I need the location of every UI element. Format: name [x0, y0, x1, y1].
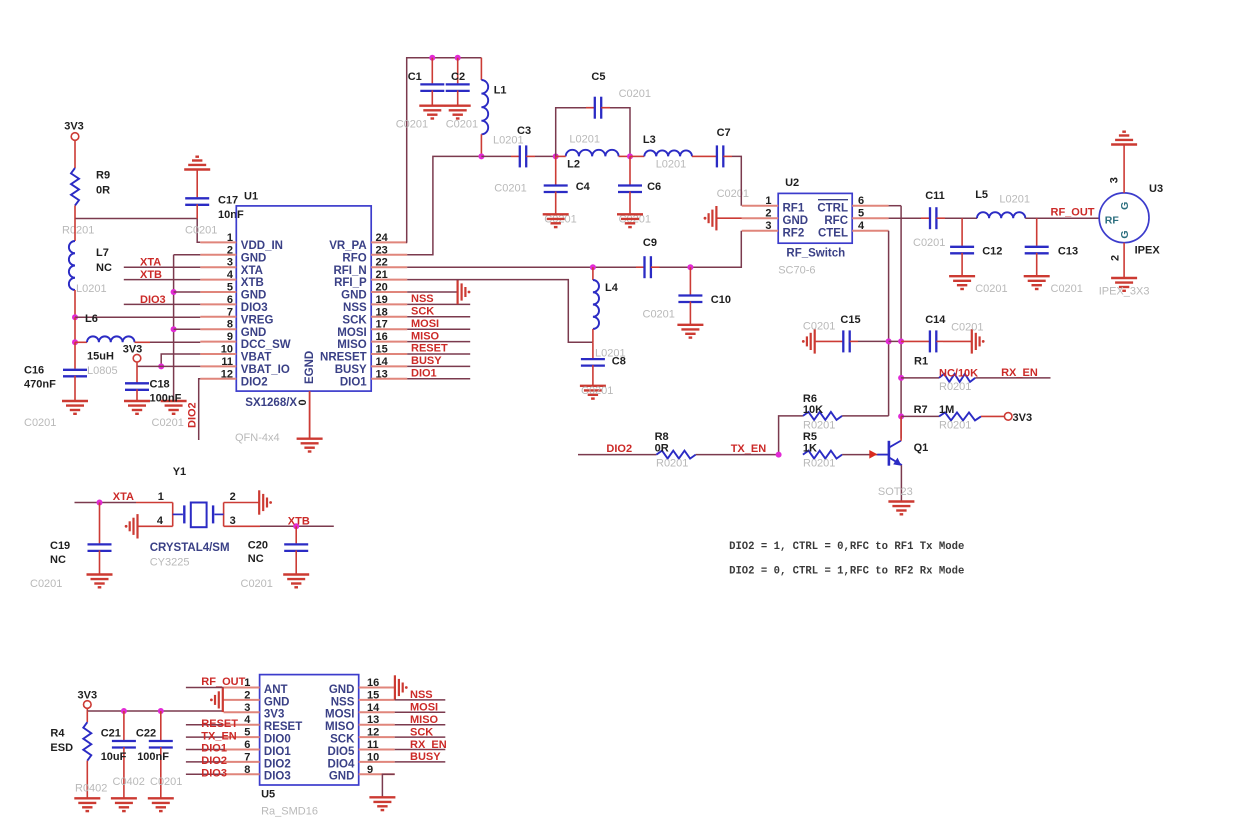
- svg-text:DIO3: DIO3: [241, 302, 268, 314]
- wire R6 right to CTEL: [842, 415, 889, 417]
- wire L5 to U3: [1025, 217, 1099, 219]
- wire XTB net (crystal): [224, 525, 260, 527]
- svg-text:NSS: NSS: [331, 696, 355, 708]
- svg-text:C22: C22: [136, 728, 156, 740]
- svg-text:3V3: 3V3: [78, 690, 98, 702]
- svg-text:3: 3: [227, 257, 233, 269]
- U5 pin 13 stub: [359, 724, 395, 726]
- wire 3V3 to R9: [74, 140, 76, 168]
- U1 pin 15 stub: [371, 353, 407, 355]
- U5 pin 3 stub: [224, 711, 260, 713]
- wire RFI_P net: [407, 280, 593, 343]
- svg-text:C0201: C0201: [581, 385, 613, 397]
- U1 pin 22 stub: [371, 266, 407, 268]
- svg-text:0: 0: [297, 399, 309, 405]
- svg-text:C2: C2: [451, 71, 465, 83]
- junction dot C21: [121, 708, 127, 714]
- svg-text:DIO2: DIO2: [241, 376, 268, 388]
- crystal Y1: [173, 503, 224, 528]
- junction dot C1: [429, 55, 435, 61]
- wire DIO3 net: [124, 303, 201, 305]
- svg-text:XTB: XTB: [241, 277, 264, 289]
- svg-text:C0201: C0201: [717, 188, 749, 200]
- U1 pin 5 stub: [200, 291, 236, 293]
- U5 pin 1 stub: [224, 687, 260, 689]
- svg-text:GND: GND: [241, 290, 267, 302]
- svg-text:DIO1: DIO1: [340, 376, 367, 388]
- U1 pin 9 stub: [200, 341, 236, 343]
- U3 pin 3 wire: [1123, 145, 1125, 193]
- wire R5 to Q1 base: [842, 454, 887, 456]
- wire C3 to L2 node: [535, 155, 556, 157]
- svg-text:C12: C12: [982, 246, 1002, 258]
- svg-text:4: 4: [157, 515, 164, 527]
- resistor R9: [71, 168, 79, 206]
- wire 3V3 rail: [86, 708, 88, 711]
- wire CTRL vertical: [889, 205, 902, 207]
- svg-text:SCK: SCK: [330, 734, 355, 746]
- svg-text:10uF: 10uF: [101, 751, 127, 763]
- ground C10: [677, 325, 703, 338]
- svg-text:16: 16: [367, 677, 379, 689]
- U1 pin 10 stub: [200, 353, 236, 355]
- transistor Q1: [877, 441, 902, 466]
- resistor R8: [656, 451, 695, 459]
- U2 pin 1 stub: [742, 205, 778, 207]
- svg-text:14: 14: [376, 356, 389, 368]
- U1 pin 8 stub: [200, 328, 236, 330]
- svg-text:BUSY: BUSY: [410, 751, 441, 763]
- svg-text:6: 6: [244, 739, 250, 751]
- svg-text:DIO2: DIO2: [187, 402, 199, 428]
- wire Y1 pin2 to ground: [224, 502, 260, 504]
- svg-text:470nF: 470nF: [24, 379, 56, 391]
- junction dot C2: [455, 55, 461, 61]
- svg-text:RFC: RFC: [824, 215, 848, 227]
- ground C16: [62, 401, 88, 414]
- svg-text:RF2: RF2: [783, 227, 805, 239]
- wire U2 pin5 to C11: [889, 217, 921, 219]
- svg-text:MOSI: MOSI: [410, 702, 438, 714]
- wire VBAT step: [161, 354, 200, 366]
- resistor R6: [803, 412, 842, 420]
- U5 pin 8 stub: [224, 773, 260, 775]
- resistor R1: [939, 374, 975, 382]
- U5 pin 11 stub: [359, 749, 395, 751]
- svg-text:C0201: C0201: [185, 225, 217, 237]
- wire C17 to U1 pin1: [197, 219, 200, 243]
- U5 pin 9 stub: [359, 773, 395, 775]
- svg-text:U1: U1: [244, 191, 258, 203]
- wire net NSS (U1 pin 19): [407, 303, 470, 305]
- ground C1: [419, 106, 445, 119]
- wire MISO from U5 pin 13: [395, 724, 446, 726]
- svg-text:1: 1: [227, 232, 233, 244]
- svg-text:2: 2: [765, 208, 771, 220]
- svg-text:C8: C8: [612, 356, 626, 368]
- capacitor C6: [629, 156, 631, 184]
- U1 pin 2 stub: [200, 254, 236, 256]
- svg-text:7: 7: [244, 751, 250, 763]
- svg-text:24: 24: [376, 232, 389, 244]
- svg-text:IPEX_3X3: IPEX_3X3: [1099, 286, 1150, 298]
- resistor R4: [86, 711, 88, 722]
- svg-text:MISO: MISO: [411, 330, 440, 342]
- wire SCK from U5 pin 12: [395, 736, 446, 738]
- svg-text:RESET: RESET: [264, 721, 302, 733]
- inductor L4: [592, 267, 594, 280]
- capacitor C19: [99, 503, 101, 544]
- wire L7 bottom to VREG node: [74, 290, 76, 317]
- U5 pin 12 stub: [359, 736, 395, 738]
- svg-text:C9: C9: [643, 237, 657, 249]
- ground Q1 emitter: [888, 502, 914, 515]
- svg-text:3V3: 3V3: [64, 121, 84, 133]
- svg-text:SCK: SCK: [410, 726, 433, 738]
- svg-text:G: G: [1119, 202, 1131, 210]
- capacitor C5: [586, 107, 595, 109]
- wire RF_OUT to U5 pin1: [186, 687, 224, 689]
- junction dot L1 bottom: [478, 153, 484, 159]
- svg-text:3: 3: [765, 220, 771, 232]
- wire net SCK (U1 pin 18): [407, 316, 470, 318]
- svg-text:C0201: C0201: [913, 237, 945, 249]
- svg-text:DCC_SW: DCC_SW: [241, 339, 291, 351]
- svg-text:DIO5: DIO5: [328, 746, 355, 758]
- U5 pin 16 stub: [359, 687, 395, 689]
- svg-text:3: 3: [1109, 177, 1121, 183]
- inductor L2: [566, 150, 619, 157]
- svg-text:0R: 0R: [655, 442, 669, 454]
- svg-text:C17: C17: [218, 195, 238, 207]
- svg-text:C3: C3: [517, 125, 531, 137]
- svg-text:NC: NC: [96, 262, 112, 274]
- svg-text:L0201: L0201: [999, 194, 1030, 206]
- svg-text:TX_EN: TX_EN: [731, 443, 767, 455]
- svg-text:12: 12: [367, 727, 379, 739]
- svg-text:DIO1: DIO1: [264, 746, 291, 758]
- wire C5 branch: [556, 108, 586, 157]
- svg-text:3V3: 3V3: [123, 344, 143, 356]
- svg-text:C5: C5: [591, 71, 605, 83]
- svg-text:R0201: R0201: [803, 420, 835, 432]
- wire MOSI from U5 pin 14: [395, 711, 446, 713]
- capacitor C20: [295, 526, 297, 543]
- base arrow (red): [869, 450, 877, 459]
- svg-text:NC: NC: [248, 553, 264, 565]
- junction dot VREG net: [72, 314, 78, 320]
- wire R9 bottom: [74, 206, 76, 219]
- U2 pin 3 stub: [742, 230, 778, 232]
- wire C14 to ground: [943, 340, 972, 342]
- svg-text:9: 9: [367, 764, 373, 776]
- svg-text:Y1: Y1: [173, 466, 186, 478]
- svg-text:Ra_SMD16: Ra_SMD16: [261, 806, 318, 818]
- svg-text:C0201: C0201: [446, 119, 478, 131]
- junction dot R7 node: [898, 413, 904, 419]
- wire R1 right RX_EN: [975, 377, 1050, 379]
- U5 pin 15 stub: [359, 699, 395, 701]
- svg-text:C0201: C0201: [619, 88, 651, 100]
- svg-text:C0201: C0201: [396, 119, 428, 131]
- svg-text:8: 8: [244, 764, 250, 776]
- ground U5 pin9: [369, 797, 395, 810]
- svg-text:MISO: MISO: [410, 714, 439, 726]
- svg-text:RF_OUT: RF_OUT: [201, 676, 245, 688]
- svg-text:CY3225: CY3225: [150, 557, 190, 569]
- svg-text:C15: C15: [840, 314, 860, 326]
- U5 pin 5 stub: [224, 736, 260, 738]
- svg-text:L0805: L0805: [87, 365, 118, 377]
- junction dot L4 top: [590, 264, 596, 270]
- svg-text:RFI_N: RFI_N: [333, 265, 366, 277]
- wire net DIO1 (U1 pin 13): [407, 378, 470, 380]
- svg-text:10: 10: [367, 751, 379, 763]
- capacitor C4: [555, 156, 557, 184]
- svg-text:U3: U3: [1149, 183, 1163, 195]
- wire R6 left vertical: [779, 416, 803, 455]
- svg-text:C0201: C0201: [150, 776, 182, 788]
- svg-text:R0201: R0201: [939, 420, 971, 432]
- svg-text:VBAT_IO: VBAT_IO: [241, 364, 290, 376]
- junction dot CTRL/C14: [898, 338, 904, 344]
- wire net MOSI (U1 pin 17): [407, 328, 470, 330]
- svg-text:XTA: XTA: [241, 265, 263, 277]
- wire VBAT_IO net: [137, 365, 200, 367]
- ground C14 (sideways): [972, 329, 980, 353]
- U1 pin 11 stub: [200, 365, 236, 367]
- svg-text:DIO2: DIO2: [606, 443, 632, 455]
- svg-text:DIO2: DIO2: [264, 758, 291, 770]
- svg-text:L0201: L0201: [569, 134, 600, 146]
- svg-text:13: 13: [367, 714, 379, 726]
- wire between CTEL and CTRL dots: [889, 340, 902, 342]
- ground C4: [543, 214, 569, 227]
- svg-text:14: 14: [367, 702, 380, 714]
- ground C22: [148, 798, 174, 811]
- svg-text:C4: C4: [576, 181, 591, 193]
- ground C18: [124, 401, 150, 414]
- svg-text:C0201: C0201: [30, 578, 62, 590]
- U5 pin 7 stub: [224, 761, 260, 763]
- junction dot pin5 GND: [171, 289, 177, 295]
- U1 pin 23 stub: [371, 254, 407, 256]
- U5 pin 14 stub: [359, 711, 395, 713]
- U2 pin 6 stub: [852, 205, 888, 207]
- svg-text:R0201: R0201: [656, 457, 688, 469]
- resistor R7: [939, 412, 981, 420]
- svg-text:DIO0: DIO0: [264, 734, 291, 746]
- wire U5 pin9 to ground: [382, 774, 394, 797]
- svg-text:13: 13: [376, 368, 388, 380]
- svg-text:XTB: XTB: [140, 269, 162, 281]
- capacitor C15: [815, 340, 844, 342]
- svg-text:RF: RF: [1105, 215, 1120, 227]
- svg-text:RF1: RF1: [783, 202, 805, 214]
- svg-text:R8: R8: [655, 431, 669, 443]
- svg-text:22: 22: [376, 257, 388, 269]
- U5 pin 2 stub: [224, 699, 260, 701]
- capacitor C17: [196, 170, 198, 198]
- ground above C17 (inverted): [184, 157, 210, 170]
- svg-text:6: 6: [858, 195, 864, 207]
- U1 pin 19 stub: [371, 303, 407, 305]
- U1 pin 16 stub: [371, 341, 407, 343]
- capacitor C18: [125, 383, 149, 390]
- svg-text:G: G: [1119, 230, 1131, 238]
- U1 pin 14 stub: [371, 365, 407, 367]
- ground Y1 pin4 (sideways): [130, 514, 138, 538]
- svg-text:MOSI: MOSI: [337, 327, 366, 339]
- svg-text:C16: C16: [24, 365, 44, 377]
- svg-text:RF_Switch: RF_Switch: [786, 248, 845, 260]
- wire L6 to U1 pin9: [150, 341, 200, 343]
- capacitor C9: [636, 266, 645, 268]
- junction dot C4/C5 node: [553, 153, 559, 159]
- ground U2 pin2 (sideways): [716, 217, 741, 219]
- ground above U3 (inverted): [1111, 132, 1137, 145]
- junction dot C6/C5 node: [627, 153, 633, 159]
- svg-text:GND: GND: [329, 684, 355, 696]
- capacitor C16: [74, 342, 76, 369]
- U1 pin 12 stub: [200, 378, 236, 380]
- U1 pin 17 stub: [371, 328, 407, 330]
- svg-text:1K: 1K: [803, 442, 817, 454]
- svg-text:R9: R9: [96, 170, 110, 182]
- svg-text:15uH: 15uH: [87, 351, 114, 363]
- svg-text:BUSY: BUSY: [335, 364, 367, 376]
- svg-text:CTRL: CTRL: [817, 202, 848, 214]
- connector U3 IPEX circle: [1099, 193, 1149, 243]
- capacitor C1: [431, 58, 433, 84]
- resistor R5: [803, 451, 842, 459]
- svg-text:L6: L6: [85, 313, 98, 325]
- svg-text:CTEL: CTEL: [818, 227, 848, 239]
- svg-text:DIO4: DIO4: [328, 758, 355, 770]
- U2 pin 5 stub: [852, 217, 888, 219]
- U1 pin 4 stub: [200, 279, 236, 281]
- capacitor C12: [961, 218, 963, 246]
- junction dot TX_EN: [776, 452, 782, 458]
- svg-text:1: 1: [158, 491, 164, 503]
- ground C2: [445, 106, 471, 119]
- svg-text:100nF: 100nF: [137, 751, 169, 763]
- inductor L1: [480, 58, 482, 80]
- U5 pin 10 stub: [359, 761, 395, 763]
- svg-text:ANT: ANT: [264, 684, 288, 696]
- wire U1 pin20 GND: [407, 291, 457, 293]
- capacitor C7: [708, 155, 717, 157]
- svg-text:L4: L4: [605, 282, 619, 294]
- ground C12: [949, 276, 975, 289]
- svg-text:L0201: L0201: [76, 283, 107, 295]
- svg-text:15: 15: [376, 344, 388, 356]
- power symbol 3V3 (U5): [84, 701, 92, 709]
- svg-text:21: 21: [376, 269, 388, 281]
- wire R7 to 3V3: [981, 415, 1005, 417]
- svg-text:ESD: ESD: [50, 742, 73, 754]
- svg-text:SCK: SCK: [342, 314, 367, 326]
- wire C11 to L5: [945, 217, 977, 219]
- svg-text:CRYSTAL4/SM: CRYSTAL4/SM: [150, 542, 230, 554]
- svg-text:20: 20: [376, 282, 388, 294]
- svg-text:RESET: RESET: [411, 343, 448, 355]
- wire Y1 pin4 to ground: [138, 525, 173, 527]
- wire node to L6: [74, 317, 76, 342]
- svg-text:RF_OUT: RF_OUT: [1051, 207, 1095, 219]
- svg-text:12: 12: [221, 368, 233, 380]
- wire RX_EN from U5 pin 11: [395, 749, 446, 751]
- svg-text:C13: C13: [1058, 246, 1078, 258]
- svg-text:7: 7: [227, 306, 233, 318]
- svg-text:XTA: XTA: [113, 491, 134, 503]
- svg-text:L1: L1: [494, 85, 507, 97]
- svg-text:C0201: C0201: [24, 417, 56, 429]
- ground U5 pin2 (sideways): [215, 688, 223, 712]
- ground C6: [617, 214, 643, 227]
- svg-text:R0201: R0201: [939, 381, 971, 393]
- wire BUSY from U5 pin 10: [395, 761, 446, 763]
- wire XTA net: [124, 266, 201, 268]
- svg-text:MISO: MISO: [337, 339, 366, 351]
- ground C15 (sideways): [807, 329, 815, 353]
- U1 pin 21 stub: [371, 279, 407, 281]
- svg-text:100nF: 100nF: [150, 392, 182, 404]
- ground U1 EGND: [297, 439, 323, 452]
- capacitor C8: [592, 342, 594, 358]
- svg-text:U5: U5: [261, 789, 275, 801]
- svg-text:R4: R4: [50, 728, 65, 740]
- U5 pin 6 stub: [224, 749, 260, 751]
- svg-text:EGND: EGND: [304, 351, 316, 384]
- wire RFO vertical: [407, 156, 481, 254]
- svg-text:L2: L2: [567, 159, 580, 171]
- svg-text:NSS: NSS: [411, 293, 434, 305]
- svg-text:4: 4: [244, 714, 251, 726]
- svg-text:DIO1: DIO1: [411, 368, 437, 380]
- svg-text:NSS: NSS: [343, 302, 367, 314]
- capacitor C22: [160, 711, 162, 740]
- svg-text:DIO3: DIO3: [201, 768, 227, 780]
- svg-text:SCK: SCK: [411, 306, 434, 318]
- svg-text:RESET: RESET: [201, 718, 238, 730]
- svg-text:RX_EN: RX_EN: [410, 739, 447, 751]
- svg-text:C1: C1: [408, 71, 422, 83]
- wire Q1 emitter: [900, 465, 902, 501]
- svg-text:3: 3: [244, 702, 250, 714]
- svg-text:10nF: 10nF: [218, 209, 244, 221]
- svg-text:18: 18: [376, 306, 388, 318]
- svg-text:C18: C18: [150, 378, 170, 390]
- svg-text:GND: GND: [783, 215, 809, 227]
- wire R8 to TX_EN node: [696, 454, 779, 456]
- wire pin8 to chain: [174, 328, 201, 330]
- svg-text:23: 23: [376, 244, 388, 256]
- wire RFI_N net: [407, 266, 636, 268]
- U1 pin 20 stub: [371, 291, 407, 293]
- junction dot C20: [293, 523, 299, 529]
- svg-text:DIO2: DIO2: [201, 755, 227, 767]
- wire DIO3 to U5 pin 8: [186, 773, 224, 775]
- svg-text:R0402: R0402: [75, 783, 107, 795]
- svg-text:MOSI: MOSI: [411, 318, 439, 330]
- ground C19: [87, 575, 113, 588]
- capacitor C3: [511, 155, 520, 157]
- svg-text:1: 1: [765, 195, 771, 207]
- svg-text:8: 8: [227, 319, 233, 331]
- ground C8: [580, 386, 606, 399]
- svg-text:NRESET: NRESET: [320, 352, 367, 364]
